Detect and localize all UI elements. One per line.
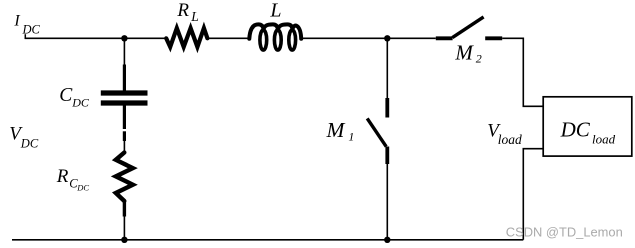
svg-text:CSDN @TD_Lemon: CSDN @TD_Lemon bbox=[506, 224, 623, 239]
wire cap branch lower bbox=[123, 217, 125, 240]
inductor L loop 2 bbox=[274, 30, 281, 50]
switch M1 top lead bbox=[385, 98, 389, 118]
svg-text:2: 2 bbox=[476, 52, 482, 66]
svg-text:DC: DC bbox=[22, 22, 41, 36]
node junction dot top left branch bbox=[121, 35, 127, 41]
resistor R_CDC bottom lead bbox=[123, 201, 126, 217]
svg-text:I: I bbox=[13, 13, 20, 30]
svg-text:M: M bbox=[454, 40, 474, 64]
svg-text:1: 1 bbox=[348, 129, 354, 143]
svg-text:L: L bbox=[190, 9, 199, 24]
capacitor C_DC bottom lead bbox=[123, 106, 126, 130]
switch M1 blade bbox=[367, 118, 386, 146]
wire top-left horizontal bbox=[25, 37, 167, 39]
svg-text:load: load bbox=[498, 132, 522, 147]
switch M2 right lead bbox=[485, 36, 502, 40]
svg-text:C: C bbox=[59, 85, 73, 106]
wire bottom rail bbox=[12, 239, 523, 241]
inductor L loop 1 bbox=[260, 30, 267, 50]
resistor R_L bbox=[166, 28, 207, 47]
load box DC_load bbox=[543, 97, 632, 156]
switch M2 blade bbox=[452, 17, 483, 38]
svg-text:DC: DC bbox=[20, 136, 39, 150]
svg-text:DC: DC bbox=[71, 95, 90, 109]
wire from L to M2 bbox=[303, 37, 436, 39]
resistor R_CDC bbox=[116, 153, 133, 202]
inductor L humps bbox=[249, 24, 301, 38]
svg-text:R: R bbox=[56, 166, 69, 187]
resistor R_CDC top lead bbox=[123, 131, 126, 141]
wire from load box bottom to bottom rail bbox=[523, 149, 543, 240]
svg-text:L: L bbox=[269, 0, 281, 22]
node input tick bbox=[24, 34, 26, 39]
svg-text:R: R bbox=[176, 0, 189, 21]
wire from M2 to load top corner bbox=[502, 38, 543, 106]
capacitor C_DC bottom plate bbox=[101, 100, 148, 105]
node junction dot bottom left branch bbox=[121, 237, 127, 243]
wire between C_DC and R_CDC bbox=[123, 141, 125, 154]
wire M1 branch upper bbox=[386, 38, 388, 98]
capacitor C_DC top lead bbox=[123, 65, 126, 91]
switch M2 left lead bbox=[436, 36, 453, 40]
wire between R_L and L bbox=[207, 37, 249, 39]
wire M1 branch lower bbox=[386, 164, 388, 240]
node junction dot top M1 branch bbox=[384, 35, 390, 41]
svg-text:M: M bbox=[326, 118, 346, 142]
svg-text:DC: DC bbox=[76, 183, 89, 193]
svg-text:DC: DC bbox=[560, 117, 591, 141]
inductor L loop 3 bbox=[289, 30, 296, 50]
wire cap branch upper bbox=[123, 38, 125, 65]
node junction dot bottom M1 branch bbox=[384, 237, 390, 243]
capacitor C_DC top plate bbox=[101, 90, 148, 95]
switch M1 bottom lead bbox=[385, 147, 389, 165]
svg-text:load: load bbox=[592, 132, 616, 147]
